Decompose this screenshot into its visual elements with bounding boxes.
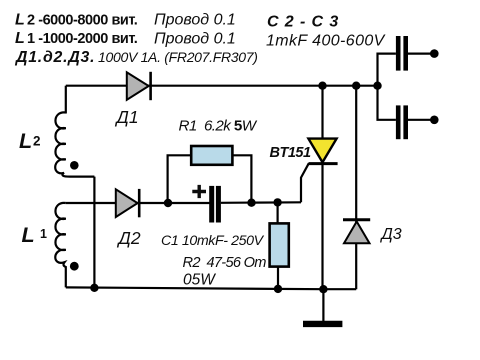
wire: left vertical from top bus to L2 top	[65, 86, 67, 114]
node: Д2 cathode / R1 / C1 junction	[164, 199, 172, 207]
svg-text:C1 10mkF- 250V: C1 10mkF- 250V	[161, 233, 265, 249]
node: gate / R2 top junction	[273, 198, 281, 206]
node: top bus / thyristor anode	[318, 82, 326, 90]
svg-text:R1 6.2k 5W: R1 6.2k 5W	[179, 118, 258, 135]
node: top bus / C2-C3 branch	[373, 82, 381, 90]
svg-text:1mkF 400-600V: 1mkF 400-600V	[266, 32, 386, 49]
terminal dot: C2 output	[430, 49, 439, 58]
svg-text:C 2 - C 3: C 2 - C 3	[267, 14, 339, 31]
wire: R1 left lead	[168, 155, 192, 203]
svg-text:1000V 1A. (FR207.FR307): 1000V 1A. (FR207.FR307)	[98, 49, 258, 65]
svg-text:Д1: Д1	[115, 107, 139, 127]
svg-text:L: L	[15, 11, 25, 28]
node: ground junction on bottom bus	[319, 285, 327, 293]
node: R1 right / C1 plus junction	[247, 199, 255, 207]
inductor L2	[55, 112, 94, 176]
polarity dot L2	[70, 161, 79, 170]
svg-text:2 -6000-8000 вит.: 2 -6000-8000 вит.	[27, 12, 138, 28]
wire: C2 left lead	[378, 54, 396, 86]
diode Д3	[343, 220, 370, 244]
resistor R1	[191, 146, 232, 165]
diode Д1	[127, 72, 151, 100]
wire: gate lead to thyristor	[301, 163, 309, 202]
wire: R1 right lead	[232, 155, 251, 202]
wire: thyristor anode from top bus	[321, 86, 323, 140]
node: centre tap on bottom bus	[90, 284, 98, 292]
wire: Д3 branch vertical	[355, 86, 357, 290]
note: L1 winding spec line 2	[15, 30, 236, 47]
svg-text:2: 2	[33, 134, 41, 149]
wire: R2 bottom lead	[277, 267, 279, 289]
capacitor C3	[396, 105, 408, 139]
resistor R2	[270, 223, 289, 266]
wire: centre tap vertical (L2 bottom to bottom bus)	[93, 177, 95, 288]
ground	[303, 321, 342, 327]
note: diode spec line 3	[14, 49, 258, 66]
svg-text:05W: 05W	[183, 272, 216, 289]
svg-text:L: L	[22, 223, 35, 247]
svg-text:L: L	[15, 30, 25, 47]
wire: C1 right plate to gate node	[221, 201, 301, 204]
inductor L1	[55, 203, 66, 288]
svg-text:Провод 0.1: Провод 0.1	[154, 12, 236, 29]
svg-text:Д1.д2.Д3.: Д1.д2.Д3.	[14, 49, 95, 66]
diode Д2	[116, 189, 139, 217]
svg-text:R2 47-56 Om: R2 47-56 Om	[183, 255, 267, 271]
wire: C3 left lead	[378, 86, 396, 120]
note: L2 winding spec line 1	[15, 11, 236, 28]
svg-text:L: L	[19, 129, 32, 153]
wire: top bus	[66, 85, 378, 87]
C1 polarity plus	[192, 185, 206, 198]
node: top bus / Д3 branch	[352, 82, 360, 90]
polarity dot L1	[70, 262, 79, 271]
svg-text:BT151: BT151	[270, 145, 311, 161]
capacitor C1	[209, 186, 221, 223]
wire: C3 right lead	[408, 119, 431, 121]
svg-text:Д3: Д3	[380, 226, 402, 243]
label L2	[19, 129, 41, 153]
wire: C2 right lead	[408, 52, 431, 54]
terminal dot: C3 output	[430, 116, 439, 125]
label L1	[22, 223, 48, 247]
wire: mid bus from L1 top to C1 left plate	[66, 202, 210, 204]
wire: ground stem	[322, 289, 324, 321]
svg-text:Д2: Д2	[117, 228, 141, 248]
thyristor U1 BT151	[308, 139, 337, 164]
wire: bottom bus	[66, 287, 356, 289]
svg-text:1: 1	[40, 227, 47, 241]
wire: R2 top lead	[277, 202, 279, 223]
wire: thyristor cathode to bottom bus	[321, 162, 323, 289]
svg-text:1 -1000-2000 вит.: 1 -1000-2000 вит.	[27, 31, 138, 47]
capacitor C2	[396, 36, 408, 71]
node: R2 bottom on bottom bus	[274, 285, 282, 293]
svg-text:Провод 0.1: Провод 0.1	[154, 30, 236, 47]
